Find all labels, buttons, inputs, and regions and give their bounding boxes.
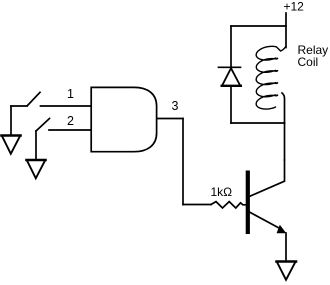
svg-text:3: 3	[172, 99, 179, 113]
diode D1 cathode bar	[219, 66, 241, 68]
transistor Q1 collector	[250, 160, 285, 196]
wire +12 drop	[285, 13, 287, 48]
transistor Q1 emitter arrow	[277, 225, 287, 234]
ground G2	[27, 160, 46, 178]
switch S2 arm	[36, 119, 50, 132]
wire output drop	[182, 119, 184, 205]
resistor R1	[211, 202, 246, 208]
svg-text:1kΩ: 1kΩ	[211, 185, 233, 199]
wire input 2	[49, 129, 91, 131]
wire input 1	[41, 105, 92, 107]
switch S2 ground drop	[35, 131, 37, 160]
AND gate U1	[91, 87, 156, 151]
wire gate output	[157, 118, 183, 120]
switch S1 left contact wire	[11, 105, 27, 107]
ground G1	[2, 136, 21, 154]
wire diode top	[230, 26, 232, 67]
wire top rail	[231, 25, 286, 27]
wire diode bottom	[230, 87, 232, 124]
diode D1 triangle	[222, 68, 241, 86]
relay coil L1	[256, 46, 285, 109]
transistor Q1 emitter	[250, 212, 278, 227]
switch S1 arm	[28, 92, 41, 105]
wire collector to coil junction	[284, 123, 286, 160]
wire to resistor	[183, 204, 211, 206]
svg-text:+12: +12	[284, 0, 305, 14]
wire emitter to ground	[285, 233, 287, 261]
wire S1 ground drop	[10, 106, 12, 135]
svg-text:2: 2	[67, 114, 74, 128]
ground G3	[277, 262, 297, 280]
wire coil bottom	[282, 93, 285, 123]
svg-text:1: 1	[67, 87, 74, 101]
svg-text:Coil: Coil	[298, 55, 319, 69]
wire bottom rail	[231, 122, 285, 124]
transistor Q1 base bar	[246, 171, 250, 235]
